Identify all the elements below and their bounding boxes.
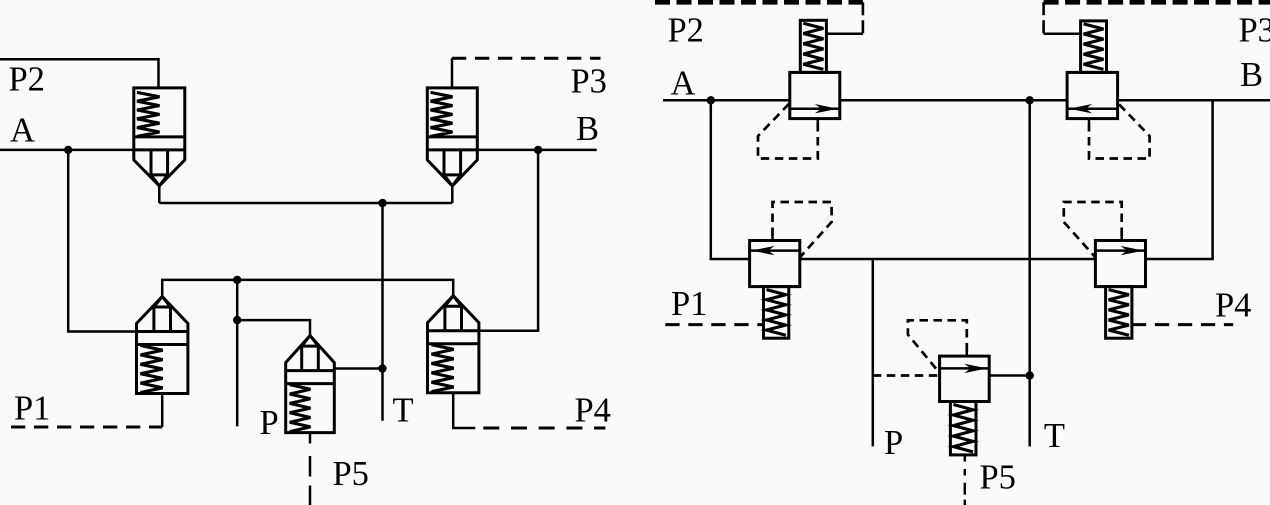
valve V3 spring chamber line [137, 343, 188, 346]
valve U2 spring box [1081, 21, 1107, 73]
wire: port A line [0, 149, 134, 152]
wire: main A-B line [663, 99, 1270, 102]
valve U3 spring [767, 290, 786, 336]
valve V3 outline (poppet cartridge, tip up) [137, 297, 188, 394]
svg-text:P4: P4 [575, 392, 611, 430]
valve V1 spring chamber line [134, 135, 185, 138]
wire: P5 dashed drop [964, 455, 967, 505]
wire: P2 pilot drop (dashed) [862, 2, 865, 33]
valve U1 body [790, 72, 840, 118]
wire: A down to valve U3 [711, 100, 750, 259]
wire: branch to V5 tip [237, 320, 310, 336]
valve U3 flow arrow [750, 249, 800, 252]
wire: T return vertical [381, 203, 384, 421]
valve U3 body [750, 241, 800, 287]
node: A junction [707, 96, 715, 104]
valve V5 outline (poppet cartridge, tip up) [286, 336, 335, 433]
wire: P4 dashed line [483, 427, 605, 430]
svg-text:P5: P5 [980, 459, 1016, 497]
wire: P2 thick dashed line [655, 0, 863, 5]
wire: P supply vertical [236, 280, 239, 427]
node: center T junction [1026, 96, 1034, 104]
valve V4 spring [432, 345, 454, 392]
valve U1 spring box [800, 20, 826, 72]
pilot loop U4 (dashed) [1120, 236, 1123, 241]
pilot loop U2 (dashed) [1088, 119, 1091, 123]
wire: P1 dashed line [11, 426, 162, 429]
svg-text:A: A [671, 65, 696, 103]
wire: V1 output down [158, 186, 161, 203]
svg-text:P1: P1 [14, 390, 50, 428]
wire: port B line [477, 149, 596, 152]
wire: T vertical [1028, 100, 1031, 446]
valve V2 poppet channel [444, 150, 461, 186]
valve U4 spring box [1106, 287, 1132, 339]
wire: P2 pilot line to valve V1 [0, 59, 159, 88]
pilot loop U5 (dashed) [966, 352, 969, 357]
valve U1 flow arrow [790, 107, 840, 110]
wire: U5 outlet to T [989, 374, 1029, 377]
valve V1 outline (poppet cartridge, tip down) [134, 88, 185, 186]
valve V2 port line [427, 148, 477, 151]
wire: P4 dashed line [1132, 323, 1233, 326]
valve V3 port line [137, 330, 188, 333]
valve V3 poppet channel [154, 297, 171, 332]
valve U5 flow arrow [940, 367, 990, 370]
valve V4 poppet channel [445, 296, 462, 331]
svg-text:P3: P3 [1239, 12, 1270, 50]
wire: P2 pilot into spring box [826, 32, 863, 35]
wire: V5 outlet to T [334, 367, 382, 370]
valve V5 spring chamber line [286, 382, 335, 385]
valve V1 port line [134, 148, 185, 151]
valve V3 spring [141, 346, 163, 393]
node: B junction [534, 146, 542, 154]
svg-text:P2: P2 [668, 12, 704, 50]
wire: P1 dashed line [665, 323, 763, 326]
valve U3 spring box [764, 287, 789, 339]
svg-text:P3: P3 [571, 63, 607, 101]
wire: P vertical [872, 259, 875, 446]
wire: V3 output down [161, 394, 164, 428]
valve V2 spring chamber line [427, 135, 477, 138]
valve V2 spring [431, 92, 453, 136]
valve U4 body [1095, 241, 1145, 287]
node: W1 / T junction [378, 199, 386, 207]
valve U2 body [1067, 72, 1118, 118]
valve V1 spring [137, 92, 160, 136]
valve V2 outline (poppet cartridge, tip down) [427, 88, 477, 186]
wire: P3 thick dashed line [1044, 0, 1270, 5]
valve V1 poppet channel [151, 150, 168, 186]
valve V5 poppet channel [302, 336, 319, 371]
svg-text:T: T [1044, 417, 1065, 455]
pilot loop U1 (dashed) [817, 119, 820, 123]
svg-text:P2: P2 [9, 61, 45, 99]
valve V4 outline (poppet cartridge, tip up) [428, 296, 479, 393]
wire: P pilot to U5 (dashed) [873, 374, 940, 377]
valve V5 spring [290, 385, 311, 432]
wire: P3 pilot drop (dashed) [1042, 2, 1045, 33]
wire: A down to valve V3 [68, 150, 136, 332]
wire: V5 output stub [309, 433, 312, 444]
wire: P3 pilot into spring box [1044, 32, 1081, 35]
valve U2 spring [1084, 24, 1104, 70]
wire: P3 drop to valve V2 [451, 58, 454, 88]
wire: V2 output down [451, 186, 454, 203]
svg-text:P1: P1 [671, 285, 707, 323]
valve U5 spring [953, 405, 973, 452]
svg-text:P: P [884, 424, 903, 462]
svg-text:P: P [260, 404, 279, 442]
node: U5 outlet / T junction [1026, 371, 1034, 379]
valve U2 flow arrow [1067, 107, 1118, 110]
svg-text:B: B [1240, 56, 1263, 94]
valve U4 flow arrow [1095, 249, 1145, 252]
node: A junction [64, 146, 72, 154]
wire: B down to valve U4 [1146, 100, 1213, 259]
wire: B down to valve V4 [479, 150, 538, 331]
node: T / V5 junction [378, 364, 386, 372]
svg-text:T: T [393, 392, 414, 430]
valve V5 port line [286, 369, 335, 372]
svg-text:A: A [10, 112, 35, 150]
valve V4 spring chamber line [428, 342, 479, 345]
svg-text:B: B [576, 110, 599, 148]
pilot loop U3 (dashed) [771, 236, 774, 241]
wire: W2 linking V3 and V4 tips [162, 280, 453, 297]
valve U4 spring [1109, 290, 1129, 336]
valve U5 spring box [950, 402, 976, 455]
valve V4 port line [428, 329, 479, 332]
svg-text:P5: P5 [333, 455, 369, 493]
node: W2 / P junction [233, 276, 241, 284]
svg-text:P4: P4 [1215, 287, 1251, 325]
valve U1 spring [803, 23, 823, 69]
wire: long cross rail [800, 258, 1096, 261]
wire: P5 dashed drop [309, 456, 312, 505]
wire: W1 linking V1 and V2 outputs [159, 202, 452, 205]
wire: P3 dashed pilot line [452, 57, 601, 60]
valve U5 body (relief) [940, 356, 990, 401]
node: P branch to relief valve V5 [233, 316, 241, 324]
wire: V4 output down [453, 393, 475, 428]
